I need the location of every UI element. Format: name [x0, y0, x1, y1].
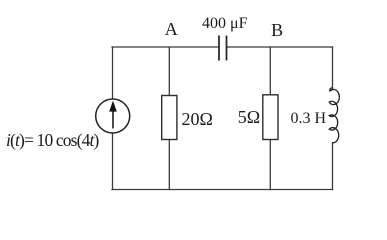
wire bottom	[112, 189, 333, 191]
wire left upper (corner to current source)	[112, 47, 114, 99]
current source I circle	[96, 99, 130, 133]
wire node A lower	[168, 140, 170, 190]
label capacitor value 400 uF	[202, 15, 247, 33]
label node B	[271, 20, 283, 41]
capacitor C 400uF plates	[219, 36, 227, 61]
wire node B lower	[269, 140, 271, 190]
inductor L 0.3H coil	[329, 88, 339, 143]
label resistor value 5 ohm	[238, 107, 260, 128]
resistor 5ohm body	[263, 95, 278, 140]
resistor 20ohm body	[162, 96, 177, 140]
label inductor value 0.3 H	[291, 110, 327, 128]
wire node A upper	[168, 47, 170, 96]
label source equation i(t)=10cos(4t)	[6, 130, 99, 151]
wire left lower (current source to bottom)	[112, 134, 114, 190]
wire top-left (left corner to capacitor)	[112, 46, 219, 48]
wire right lower (inductor to bottom)	[332, 143, 334, 190]
wire right upper (corner to inductor)	[332, 47, 334, 89]
wire node B upper	[269, 47, 271, 95]
wire top-right (capacitor to right corner)	[227, 46, 333, 48]
label node A	[165, 19, 178, 40]
current source arrow	[110, 102, 117, 129]
label resistor value 20 ohm	[182, 109, 213, 130]
